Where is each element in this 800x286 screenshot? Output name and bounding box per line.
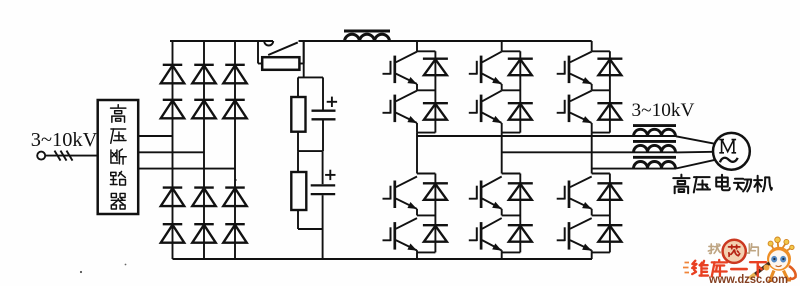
svg-text:3~10kV: 3~10kV bbox=[632, 100, 695, 121]
svg-text:www.dzsc.com: www.dzsc.com bbox=[708, 274, 788, 286]
svg-text:3~10kV: 3~10kV bbox=[31, 129, 98, 151]
